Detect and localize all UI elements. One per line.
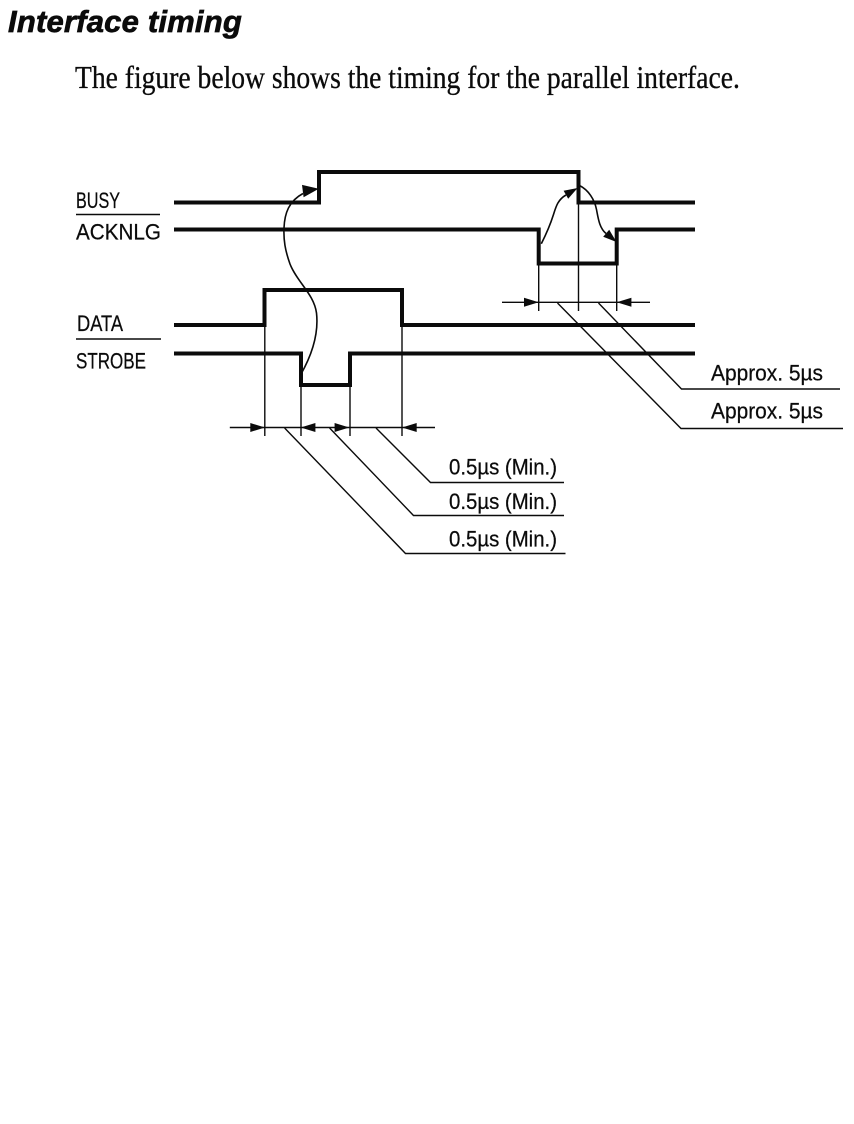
dimension arrow at STROBE rise	[335, 423, 350, 432]
leader to upper Approx label	[599, 303, 841, 389]
curved arrow STROBE fall to BUSY rise	[284, 194, 317, 375]
extension line at ACKNLG fall	[538, 266, 540, 312]
svg-text:ACKNLG: ACKNLG	[76, 220, 161, 245]
dimension arrow at DATA rise	[250, 423, 265, 432]
curved arrow ACKNLG fall to BUSY fall	[541, 195, 566, 244]
dimension arrow at ACKNLG rise	[617, 298, 632, 307]
curved arrow BUSY fall to ACKNLG rise	[580, 186, 607, 234]
extension line at DATA rise	[264, 327, 266, 436]
extension line at STROBE fall	[300, 387, 302, 436]
dimension line for DATA/STROBE timing	[230, 427, 435, 429]
extension line at STROBE rise	[349, 387, 351, 436]
leader to second 0.5us label	[330, 428, 564, 516]
leader to first 0.5us label	[376, 428, 564, 483]
dimension line for ACKNLG timing	[502, 301, 650, 303]
heading: Interface timing	[8, 4, 242, 40]
dimension arrow at STROBE fall	[301, 423, 316, 432]
svg-text:Approx. 5µs: Approx. 5µs	[711, 399, 823, 424]
DATA waveform	[174, 290, 695, 325]
rule under DATA label	[76, 338, 161, 340]
leader to third 0.5us label	[285, 428, 566, 554]
STROBE waveform	[174, 354, 695, 386]
arrowhead at ACKNLG rise	[603, 230, 616, 242]
paragraph	[75, 59, 740, 96]
svg-text:Approx. 5µs: Approx. 5µs	[711, 361, 823, 386]
extension line at BUSY fall	[578, 205, 580, 312]
dimension arrow at DATA fall	[402, 423, 417, 432]
svg-text:DATA: DATA	[77, 311, 123, 336]
BUSY waveform	[174, 172, 695, 203]
leader to lower Approx label	[558, 303, 844, 429]
dimension arrow at ACKNLG fall	[524, 298, 539, 307]
svg-text:STROBE: STROBE	[76, 349, 146, 374]
arrowhead at BUSY rise	[302, 185, 319, 197]
ACKNLG waveform	[174, 230, 695, 264]
svg-text:BUSY: BUSY	[76, 188, 120, 213]
svg-text:0.5µs (Min.): 0.5µs (Min.)	[449, 489, 557, 514]
svg-text:0.5µs (Min.): 0.5µs (Min.)	[449, 527, 557, 552]
arrowhead at BUSY fall	[564, 188, 578, 199]
rule under BUSY label	[76, 214, 160, 216]
extension line at DATA fall	[401, 327, 403, 436]
svg-text:0.5µs (Min.): 0.5µs (Min.)	[449, 455, 557, 480]
extension line at ACKNLG rise	[616, 266, 618, 312]
